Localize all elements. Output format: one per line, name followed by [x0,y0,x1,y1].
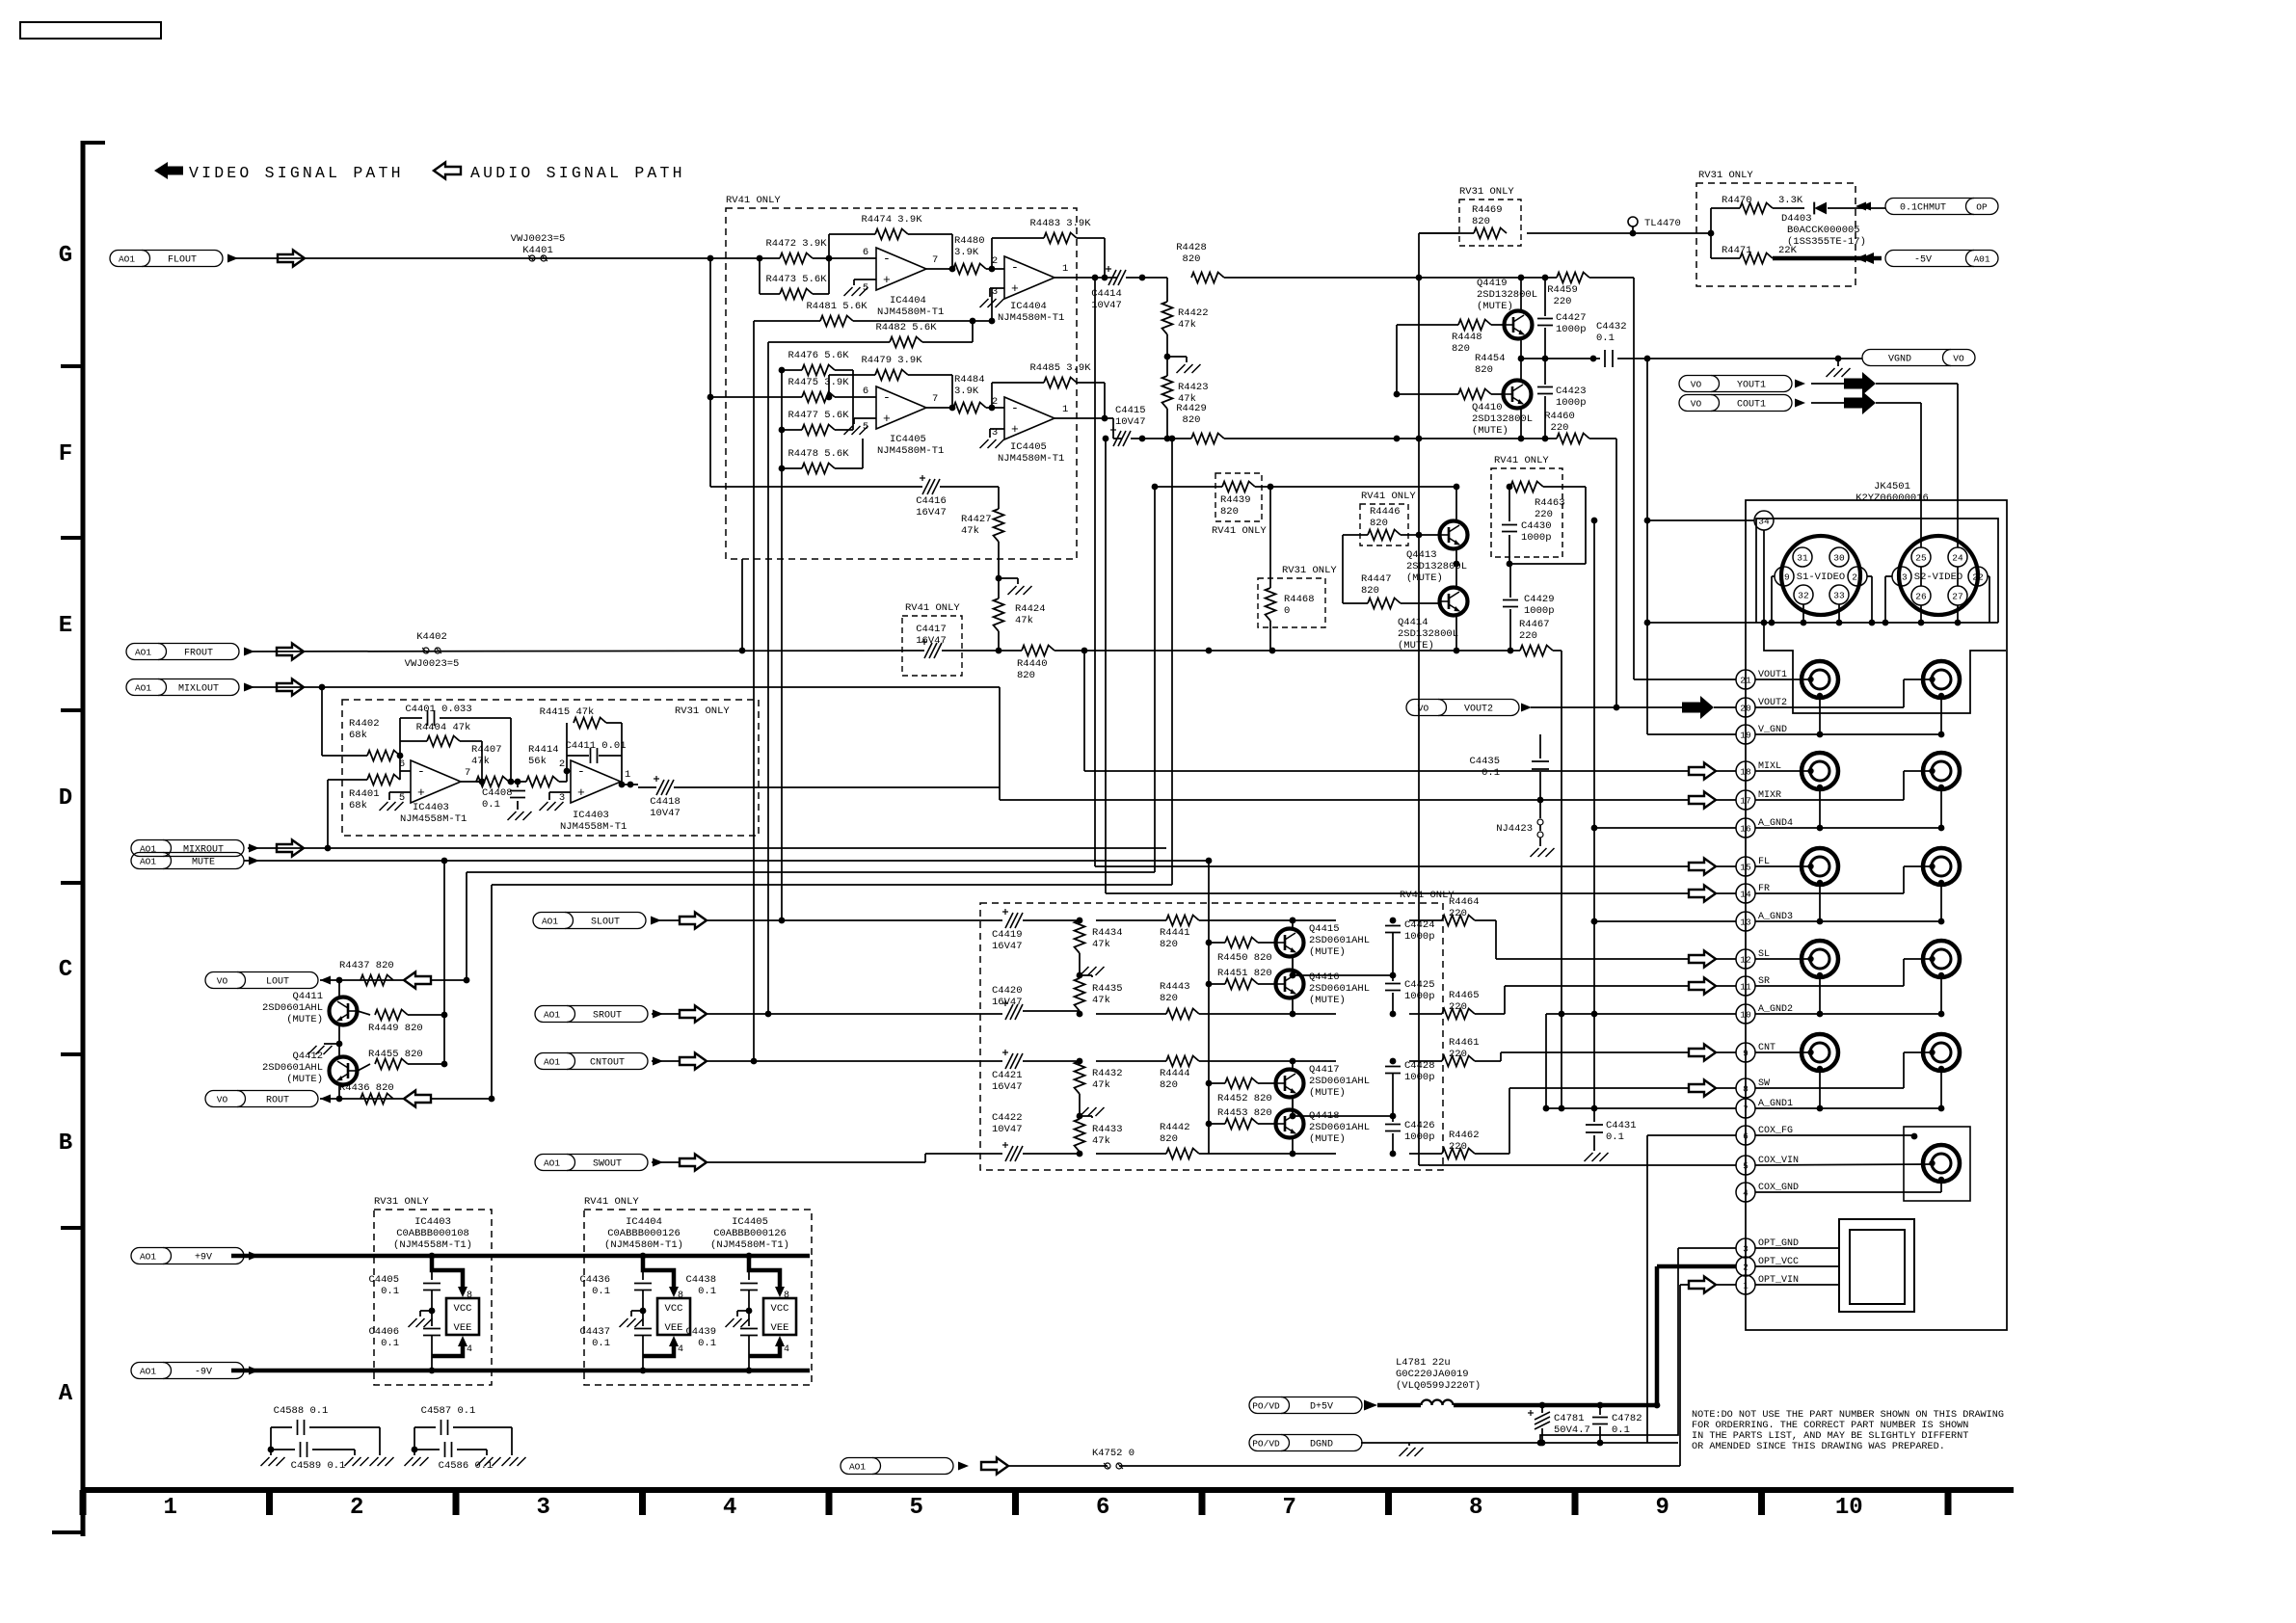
wire IC4404b out FL [1055,277,1117,279]
svg-text:VGND: VGND [1888,355,1911,365]
resistor R4436 [339,1082,394,1104]
wire mute drive riser x1198 [1152,484,1159,872]
svg-text:0.1: 0.1 [698,1338,716,1349]
wire Q4412 emitter [336,1084,343,1102]
svg-text:VCC: VCC [771,1303,789,1315]
wire SLOUT [652,919,680,921]
svg-text:R4453 820: R4453 820 [1217,1107,1272,1119]
resistor R4477 [779,370,853,468]
svg-text:VO: VO [217,976,228,987]
svg-text:Q4414: Q4414 [1398,617,1428,628]
wire mute vertical C [489,885,495,1102]
svg-text:R4427: R4427 [961,514,992,525]
wire VGND to pin19 [1644,359,1651,734]
svg-text:2: 2 [350,1495,363,1521]
transistor Q4419 [1477,278,1537,339]
wire FLOUT [227,255,780,262]
svg-text:Q4413: Q4413 [1406,549,1437,561]
svg-text:Q4415: Q4415 [1309,923,1340,935]
svg-text:32: 32 [1798,591,1809,601]
pin 13 A_GND3 [1736,912,1793,931]
resistor R4443 [1096,981,1336,1020]
svg-text:-5V: -5V [1914,255,1932,266]
svg-text:RV31 ONLY: RV31 ONLY [1459,186,1514,198]
svg-text:(MUTE): (MUTE) [1309,1133,1346,1145]
resistor R4472 [765,238,827,264]
svg-text:E: E [59,613,72,639]
jack SLb [1923,941,1960,978]
wire Q4412 collector [338,1044,340,1057]
transistor Q4414 [1398,588,1468,652]
pin 23 [1885,567,1911,623]
op-amp IC4404 unit B [990,255,1068,324]
wire SLOUT 2 [707,919,1002,921]
svg-text:SROUT: SROUT [593,1011,622,1022]
note text [1692,1410,2004,1452]
svg-text:820: 820 [1452,343,1470,355]
ground Q4411 emitter [308,1025,343,1054]
wire SR downmix vertical [765,342,772,1017]
svg-text:TL4470: TL4470 [1644,218,1681,229]
svg-text:5: 5 [399,792,405,804]
wire dropper x1136 FL [1094,278,1096,866]
capacitor C4586 [414,1442,493,1472]
svg-text:1: 1 [164,1495,177,1521]
audio path arrow [278,251,305,267]
svg-text:B0ACCK000005: B0ACCK000005 [1787,225,1860,236]
svg-text:R4434: R4434 [1092,927,1123,939]
svg-text:820: 820 [1220,506,1239,518]
inductor L4781 [1396,1357,1481,1405]
svg-text:Q4412: Q4412 [292,1051,323,1062]
wire A_GND2 vertical [1545,1014,1547,1108]
wire OPT_GND row [1537,1248,1839,1446]
resistor R4453 [1209,1107,1276,1130]
wire FROUT bus 2 [962,650,1022,652]
svg-text:R4448: R4448 [1452,332,1482,343]
svg-text:VCC: VCC [665,1303,683,1315]
wire COX_GND row [1755,1181,1941,1192]
wire Q4417 c-e [1290,1058,1397,1120]
svg-text:C0ABBB000126: C0ABBB000126 [713,1228,787,1239]
capacitor C4588 [271,1405,380,1435]
svg-text:1: 1 [1062,404,1068,415]
svg-text:B: B [59,1131,72,1157]
svg-text:R4459: R4459 [1547,284,1578,296]
resistor R4440 [1017,646,1270,682]
svg-text:50V4.7: 50V4.7 [1554,1424,1590,1436]
svg-text:IN THE PARTS LIST, AND MAY BE: IN THE PARTS LIST, AND MAY BE SLIGHTLY D… [1692,1431,1968,1442]
svg-text:-: - [1011,401,1019,415]
svg-text:NJ4423: NJ4423 [1496,823,1533,835]
transistor Q4413 [1406,521,1468,585]
svg-text:C4589 0.1: C4589 0.1 [291,1460,346,1472]
svg-text:VO: VO [1691,399,1702,410]
RV31 ONLY box (IC4403 filter) [342,700,759,836]
pin 32 [1794,585,1813,623]
wire FR bus [1518,436,1557,442]
jumper K4752 [1092,1448,1135,1469]
svg-text:C4427: C4427 [1556,312,1587,324]
svg-text:+: + [577,785,585,800]
svg-text:68k: 68k [349,800,367,811]
svg-text:S2-VIDEO: S2-VIDEO [1914,572,1962,583]
wire dropper FLOUT [707,258,714,487]
RV41 ONLY box R4446 [1360,491,1416,545]
svg-text:AO1: AO1 [135,648,151,658]
svg-text:VEE: VEE [454,1322,472,1334]
svg-text:RV41 ONLY: RV41 ONLY [726,195,781,206]
svg-text:RV41 ONLY: RV41 ONLY [1212,525,1267,537]
resistor R4452 [1209,1078,1276,1105]
svg-text:1000p: 1000p [1404,1072,1435,1083]
svg-text:R4480: R4480 [954,235,985,247]
ground VGND [1827,359,1851,377]
node FLOUT input tag [110,251,238,267]
op-amp IC4404 unit A [854,247,944,318]
capacitor C4439 [685,1326,716,1349]
svg-text:R4450 820: R4450 820 [1217,952,1272,964]
svg-text:IC4403: IC4403 [573,810,609,821]
wire Q4415 c-e [1290,918,1397,979]
audio path arrow [981,1458,1008,1475]
resistor R4485 feedback [992,362,1108,421]
svg-text:7: 7 [465,767,470,779]
svg-text:3: 3 [559,792,565,804]
resistor R4468 [1266,484,1315,651]
wire in- node IC4404a [813,234,876,261]
svg-text:C4416: C4416 [916,495,947,507]
resistor R4459 [1547,273,1736,680]
RV41 ONLY box (audio mute) [980,890,1455,1170]
svg-text:820: 820 [1160,1079,1178,1091]
svg-text:IC4404: IC4404 [890,295,926,306]
capacitor C4421 [992,1050,1082,1093]
svg-text:S1-VIDEO: S1-VIDEO [1797,572,1845,583]
svg-text:R4455 820: R4455 820 [368,1049,423,1060]
wire dropper x1125 [1083,651,1085,771]
pin 31 [1793,547,1812,567]
svg-text:C: C [59,957,72,983]
audio path arrow [680,913,707,929]
svg-text:AO1: AO1 [140,1367,156,1377]
capacitor C4415 [1110,405,1191,446]
svg-text:C4781: C4781 [1554,1413,1585,1424]
svg-text:AO1: AO1 [140,1252,156,1263]
op-amp power IC4405 [710,1216,789,1251]
svg-text:RV31 ONLY: RV31 ONLY [1698,170,1753,181]
capacitor C4423 [1537,359,1587,439]
wire CNTOUT [652,1060,1002,1062]
wire ROUT [320,1098,492,1100]
ground C4588b [345,1457,369,1466]
wire D+5V thick [1377,1403,1421,1408]
svg-text:-: - [883,252,891,266]
svg-text:(NJM4580M-T1): (NJM4580M-T1) [710,1239,789,1251]
svg-text:RV31 ONLY: RV31 ONLY [675,705,730,717]
resistor R4483 feedback [992,218,1108,280]
svg-text:(MUTE): (MUTE) [1309,995,1346,1006]
ground IC4403b +in [540,802,564,811]
svg-text:R4442: R4442 [1160,1122,1190,1133]
svg-text:16V47: 16V47 [916,507,947,519]
capacitor C4435 [1469,734,1549,803]
capacitor C4406 [368,1326,399,1349]
RV41 ONLY box R4463 C4430 [1491,455,1562,557]
wire mute drive line 3 [492,884,1172,886]
svg-text:7: 7 [1283,1495,1296,1521]
svg-text:R4432: R4432 [1092,1068,1123,1079]
capacitor C4782 [1592,1405,1642,1443]
audio path arrow [277,679,304,696]
svg-text:C4414: C4414 [1091,288,1122,300]
svg-text:NOTE:DO NOT USE THE PART NUMBE: NOTE:DO NOT USE THE PART NUMBER SHOWN ON… [1692,1410,2004,1421]
resistor R4479 feedback [829,355,955,411]
svg-text:R4449 820: R4449 820 [368,1023,423,1034]
wire VOUT1 row [1755,678,1811,680]
node VOUT2 tag [1406,700,1532,716]
svg-text:4: 4 [723,1495,736,1521]
resistor R4481 [754,288,995,327]
pin 26 [1911,586,1931,623]
svg-text:220: 220 [1554,296,1572,307]
resistor R4447 [1343,573,1440,609]
svg-text:8: 8 [784,1290,789,1301]
svg-text:R4407: R4407 [471,744,502,756]
wire YOUT1 line [1811,383,1844,385]
wire VGND mid bus [1521,356,1600,362]
svg-text:26: 26 [1915,592,1927,602]
capacitor C4420 [992,985,1082,1020]
resistor R4432 [1075,1061,1123,1119]
svg-text:NJM4558M-T1: NJM4558M-T1 [560,821,627,833]
wire MUTE [244,858,1212,865]
svg-text:VO: VO [1691,380,1702,390]
svg-text:10V47: 10V47 [992,1124,1023,1135]
svg-text:R4478 5.6K: R4478 5.6K [788,448,849,460]
resistor R4480 [953,235,1004,275]
svg-text:R4404 47k: R4404 47k [416,722,471,733]
ground R4422 R4423 tap [1164,354,1201,373]
terminal TL4470 [1628,217,1681,233]
svg-text:(VLQ0599J220T): (VLQ0599J220T) [1396,1380,1481,1392]
svg-text:1000p: 1000p [1556,397,1587,409]
svg-text:2SD132800L: 2SD132800L [1398,628,1458,640]
svg-text:2SD132800L: 2SD132800L [1477,289,1537,301]
svg-text:C4438: C4438 [685,1274,716,1286]
legend video signal path arrow [154,162,183,179]
svg-text:C4419: C4419 [992,929,1023,941]
wire S-video shield bus [1644,620,1998,626]
svg-text:VO: VO [1953,354,1964,364]
op-amp power IC4404 [604,1216,683,1251]
svg-text:220: 220 [1519,630,1537,642]
svg-text:(MUTE): (MUTE) [1406,572,1443,584]
capacitor C4432 [1596,321,1862,367]
svg-text:R4446: R4446 [1370,506,1401,518]
pin 16 A_GND4 [1736,818,1793,838]
svg-text:R4428: R4428 [1176,242,1207,253]
svg-text:C4430: C4430 [1521,520,1552,532]
RV31 ONLY box diode [1696,170,1855,286]
node -9V input tag [131,1363,259,1379]
svg-text:2SD0601AHL: 2SD0601AHL [1309,1076,1370,1087]
pin 19 V_GND [1736,725,1787,744]
op-amp IC4403 unit A [389,758,470,825]
svg-text:IC4405: IC4405 [1010,441,1047,453]
resistor R4451 [1209,968,1276,990]
svg-text:(NJM4558M-T1): (NJM4558M-T1) [393,1239,472,1251]
S1-VIDEO connector [1781,536,1860,615]
node SWOUT input tag [535,1155,663,1171]
svg-text:28: 28 [1852,572,1863,583]
svg-text:A01: A01 [1973,254,1989,265]
wire A_GND3 row [1591,883,1945,924]
svg-text:R4468: R4468 [1284,594,1315,605]
wire Q4416 c-e [1290,958,1296,1017]
svg-text:220: 220 [1449,908,1467,919]
svg-text:0.1: 0.1 [592,1338,610,1349]
audio path arrow at connector [1689,978,1716,995]
capacitor C4438 [685,1274,716,1297]
svg-text:2SD0601AHL: 2SD0601AHL [262,1002,323,1014]
svg-text:R4436 820: R4436 820 [339,1082,394,1094]
resistor R4476 [779,350,853,397]
svg-text:12: 12 [1740,955,1751,966]
svg-text:VEE: VEE [771,1322,789,1334]
transistor Q4410 [1472,353,1533,437]
svg-text:0.1: 0.1 [482,799,500,811]
svg-text:1000p: 1000p [1404,931,1435,943]
svg-text:2SD0601AHL: 2SD0601AHL [1309,935,1370,946]
pin 20 VOUT2 [1736,698,1787,717]
wire MIXROUT [248,845,1166,852]
capacitor C4425 [1385,975,1435,1017]
capacitor C4416 [710,475,999,519]
audio path arrow at connector [1689,859,1716,875]
connector JK4501 inner box [1756,519,1998,623]
node AO1 spare tag [841,1458,969,1475]
svg-text:(MUTE): (MUTE) [1309,1087,1346,1099]
jack COX [1923,1145,1960,1183]
svg-text:C4418: C4418 [650,796,681,808]
svg-text:IC4404: IC4404 [626,1216,662,1228]
svg-text:C4401 0.033: C4401 0.033 [405,704,471,715]
svg-text:0.1: 0.1 [592,1286,610,1297]
pin 8 SW [1736,1078,1770,1098]
svg-text:0.1: 0.1 [381,1286,399,1297]
svg-text:1000p: 1000p [1404,991,1435,1002]
svg-text:Q4411: Q4411 [292,991,323,1002]
svg-text:C4782: C4782 [1612,1413,1642,1424]
svg-text:AO1: AO1 [544,1158,560,1169]
svg-text:RV31 ONLY: RV31 ONLY [374,1196,429,1208]
resistor R4422 [1162,278,1209,376]
svg-text:47k: 47k [1015,615,1033,626]
svg-text:OR AMENDED SINCE THIS DRAWING: OR AMENDED SINCE THIS DRAWING WAS PREPAR… [1692,1442,1945,1452]
capacitor C4431 [1586,1108,1637,1151]
RV41 ONLY box (op-amp block) [726,195,1077,559]
resistor R4439 [1155,482,1459,519]
svg-text:FLOUT: FLOUT [168,255,197,266]
svg-text:R4483 3.9K: R4483 3.9K [1029,218,1091,229]
wire SROUT [652,1013,1002,1015]
audio path arrow at connector [1689,886,1716,902]
svg-text:(1SS355TE-17): (1SS355TE-17) [1787,236,1866,248]
svg-text:8: 8 [467,1290,472,1301]
node +9V input tag [131,1248,259,1264]
svg-text:2: 2 [1743,1263,1749,1273]
jack CNTb [1923,1034,1960,1072]
svg-text:RV41 ONLY: RV41 ONLY [584,1196,639,1208]
resistor R4429 [1176,403,1521,444]
node -5V tag [1855,251,1998,267]
svg-text:24: 24 [1952,553,1963,564]
wire MIXR row [1000,771,1932,800]
RV41 ONLY box C4417 [902,602,962,676]
resistor R4469 [1472,204,1507,239]
jack FL [1802,848,1838,886]
wire MIXL row [1084,770,1811,772]
wire Q4414 c-e [1455,564,1457,651]
svg-text:2SD0601AHL: 2SD0601AHL [262,1062,323,1074]
wire FL row [1095,865,1811,867]
connector OPT outline [1839,1219,1914,1312]
S2-VIDEO connector [1899,536,1978,615]
transistor Q4416 [1276,971,1371,1007]
svg-text:Q4418: Q4418 [1309,1110,1340,1122]
audio path arrow [277,840,304,857]
resistor R4460 [1544,411,1619,710]
resistor R4442 [1096,1122,1336,1159]
svg-text:20: 20 [1740,704,1751,714]
wire IC4404a out [926,268,952,270]
svg-text:(MUTE): (MUTE) [286,1074,323,1085]
node CNTOUT input tag [535,1053,663,1070]
power pins VCC VEE IC4403 [446,1298,479,1335]
resistor R4402 [349,718,403,771]
ground C4587b [477,1457,501,1466]
svg-text:56k: 56k [528,756,547,767]
resistor R4434 [1075,920,1123,978]
ground NJ4423 [1531,848,1555,857]
svg-text:2SD132800L: 2SD132800L [1472,413,1533,425]
svg-text:R4401: R4401 [349,788,380,800]
RV31 ONLY box R4469 [1459,186,1521,246]
svg-text:4: 4 [678,1344,683,1355]
resistor R4467 [1519,619,1562,1108]
svg-text:R4473 5.6K: R4473 5.6K [765,274,827,285]
bottom ruler [83,1490,2014,1515]
svg-text:820: 820 [1183,414,1201,426]
audio path arrow at connector [1689,951,1716,968]
wire YOUT1 to S2 [1876,384,1958,586]
svg-text:RV41 ONLY: RV41 ONLY [905,602,960,614]
svg-text:AO1: AO1 [135,683,151,694]
svg-text:(MUTE): (MUTE) [1309,946,1346,958]
resistor R4428 [1176,242,1521,283]
svg-text:+: + [1011,422,1019,437]
ground C4408 [508,811,532,820]
svg-text:FROUT: FROUT [184,649,213,659]
svg-text:D: D [59,785,72,811]
wire mute drive riser x1216 [1169,436,1176,885]
resistor R4414 [526,744,571,787]
svg-text:R4443: R4443 [1160,981,1190,993]
svg-text:Q4416: Q4416 [1309,971,1340,983]
svg-text:C4437: C4437 [579,1326,610,1338]
wire MIXLOUT [244,684,1000,691]
